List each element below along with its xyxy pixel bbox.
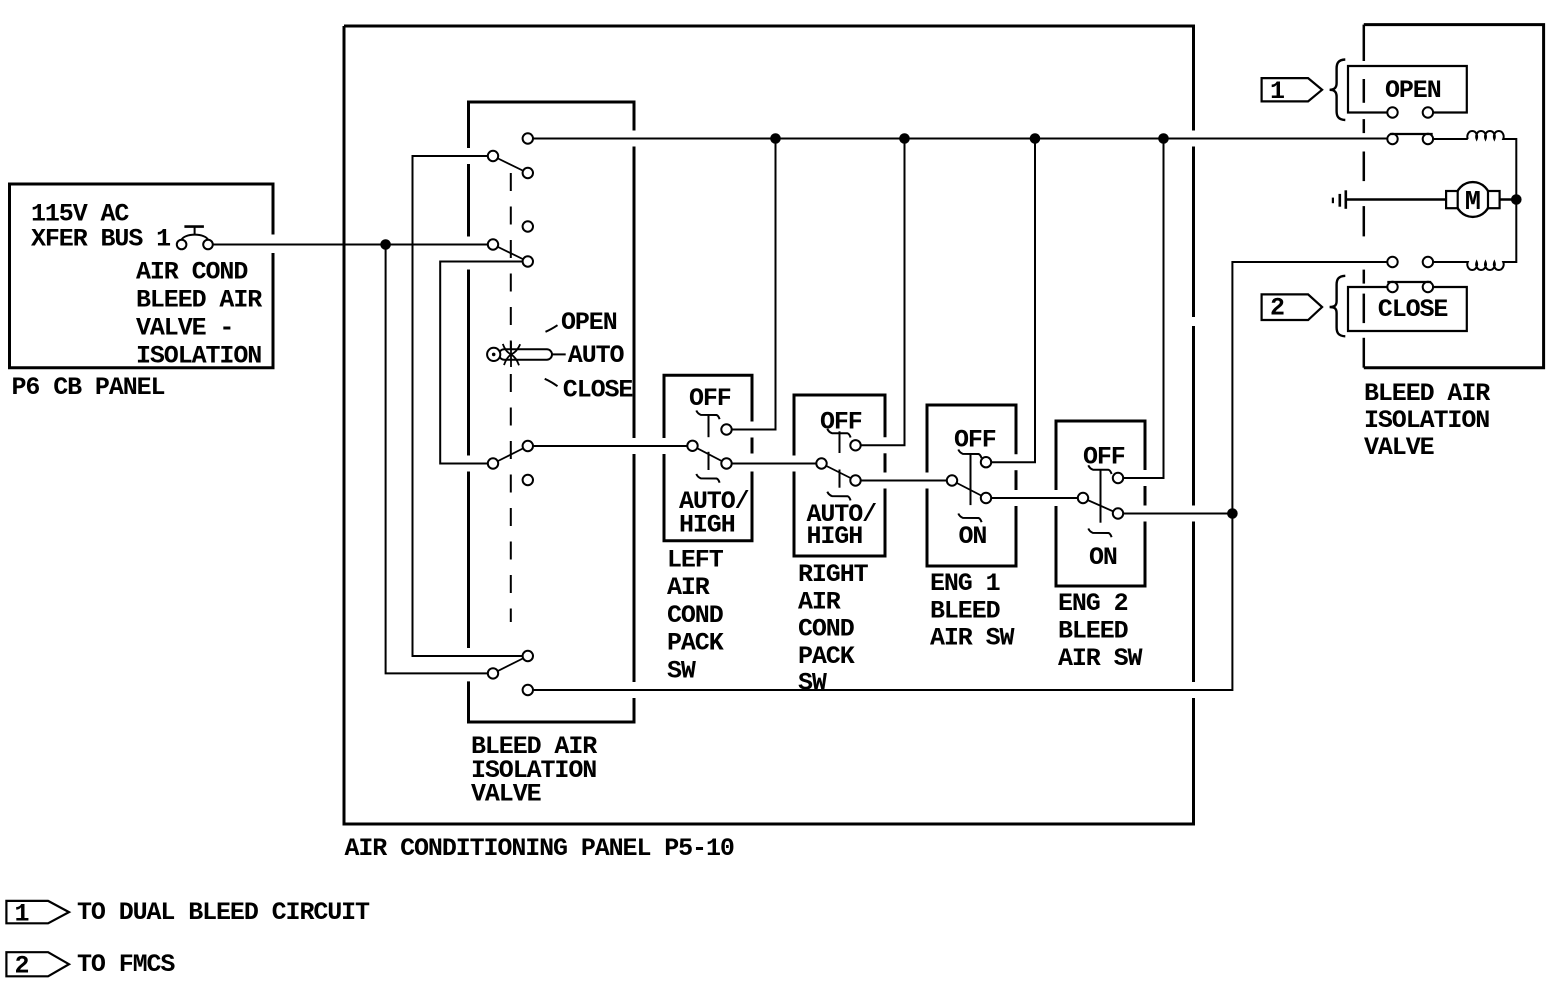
pole C common circle — [488, 458, 498, 468]
motor brush left — [1446, 191, 1458, 208]
flag 1 bottom — [6, 901, 69, 923]
left pack sw common circle — [687, 441, 697, 451]
OPEN limit switch contact circles — [1387, 134, 1397, 144]
junction dot top bus 4 — [1158, 133, 1169, 144]
svg-text:OFF: OFF — [820, 407, 862, 436]
svg-text:BLEED: BLEED — [930, 596, 1001, 625]
svg-text:AIR SW: AIR SW — [930, 624, 1015, 653]
wire ENG2 moving contact to junction — [1123, 513, 1232, 515]
eng2 sw OFF contact circle — [1113, 473, 1123, 483]
eng1 sw lower arc — [958, 514, 981, 523]
brace flag 1 — [1330, 60, 1346, 121]
close winding coil L2 — [1433, 200, 1516, 271]
junction dot motor — [1511, 194, 1522, 205]
cascade wire ENG1 to ENG2 — [991, 497, 1078, 499]
pole D lower throw circle (to bottom bus) — [523, 685, 533, 695]
eng2 sw moving contact circle — [1113, 508, 1123, 518]
svg-text:OFF: OFF — [954, 426, 996, 455]
pole C lower throw circle — [523, 475, 533, 485]
svg-text:AIR COND: AIR COND — [136, 257, 248, 286]
svg-text:VALVE -: VALVE - — [136, 313, 233, 342]
right pack sw moving contact circle — [850, 475, 860, 485]
eng1 sw arm — [952, 481, 986, 499]
left pack sw lower arc — [696, 474, 719, 483]
drop wire to LEFT pack sw OFF — [732, 139, 776, 430]
svg-text:AIR CONDITIONING PANEL P5-10: AIR CONDITIONING PANEL P5-10 — [345, 834, 734, 863]
motor M1 — [1455, 182, 1490, 217]
svg-text:AIR: AIR — [798, 587, 841, 616]
pole C arm — [493, 446, 528, 464]
junction dot top bus 1 — [770, 133, 781, 144]
pole D common circle — [488, 668, 498, 678]
bottom bus wire — [533, 262, 1387, 690]
wire motor to junction — [1500, 198, 1517, 200]
rotary switch mechanical dashed line — [510, 173, 512, 622]
left pack sw upper arc — [696, 411, 719, 420]
CLOSE box terminal circles — [1387, 282, 1397, 292]
svg-text:ISOLATION: ISOLATION — [1364, 406, 1489, 435]
wire pole A common left and down to pole D upper throw — [413, 156, 523, 656]
right pack sw lever segments — [839, 431, 841, 453]
svg-text:ENG 2: ENG 2 — [1058, 589, 1128, 618]
pole C upper throw circle (to LEFT pack sw) — [523, 441, 533, 451]
right pack sw common circle — [816, 458, 826, 468]
eng2 sw lower arc — [1088, 529, 1111, 538]
left pack sw lever segments — [708, 416, 710, 438]
rotary actuator pivot and wand — [487, 348, 552, 361]
eng1 sw moving contact circle — [981, 493, 991, 503]
pole B lower throw circle — [523, 256, 533, 266]
CLOSE box closed contact bar — [1387, 281, 1431, 283]
svg-text:LEFT: LEFT — [667, 546, 724, 575]
cascade wire RIGHT pack sw to ENG1 — [861, 480, 947, 482]
ground — [1333, 190, 1346, 209]
pole A lower throw circle — [523, 168, 533, 178]
wire OPEN contact to open winding — [1433, 138, 1468, 140]
wire pole B lower throw left and down to pole C common — [440, 262, 522, 464]
P6 CB panel box — [10, 184, 274, 368]
svg-text:BLEED: BLEED — [1058, 617, 1129, 646]
eng1 sw upper arc — [958, 450, 981, 459]
tick to CLOSE label — [545, 379, 558, 386]
eng2 sw common circle — [1078, 493, 1088, 503]
junction dot top bus 3 — [1030, 133, 1041, 144]
svg-text:OPEN: OPEN — [1385, 76, 1441, 105]
wire pole C upper throw to LEFT pack sw common — [533, 445, 687, 447]
svg-text:ON: ON — [959, 522, 987, 551]
svg-text:2: 2 — [1270, 294, 1284, 323]
svg-text:HIGH: HIGH — [679, 511, 735, 540]
tick to OPEN label — [546, 325, 558, 332]
left pack switch box — [664, 375, 752, 541]
svg-text:COND: COND — [667, 601, 724, 630]
motor brush right — [1488, 191, 1500, 208]
eng2 bleed switch box — [1056, 421, 1145, 586]
junction dot top bus 2 — [899, 133, 910, 144]
brace flag 2 — [1330, 276, 1346, 337]
pole D upper throw circle — [523, 651, 533, 661]
left pack sw moving contact circle — [721, 458, 731, 468]
svg-text:CLOSE: CLOSE — [1378, 295, 1448, 324]
pole B common circle — [488, 239, 498, 249]
bleed air isolation valve box left edge (dashed) — [1363, 25, 1366, 368]
drop wire to ENG2 sw OFF — [1123, 139, 1163, 479]
right pack switch box — [794, 395, 885, 556]
flag 1 (to dual bleed circuit) — [1262, 78, 1323, 101]
flag 2 bottom — [6, 952, 69, 976]
pole A common circle — [488, 151, 498, 161]
pole A arm — [493, 156, 528, 173]
bleed air isolation valve box (solid edges) — [1364, 25, 1544, 368]
svg-text:VALVE: VALVE — [471, 780, 541, 809]
eng2 sw arm — [1083, 498, 1118, 514]
svg-text:SW: SW — [667, 656, 696, 685]
svg-text:CLOSE: CLOSE — [563, 375, 633, 404]
open winding coil L1 — [1467, 131, 1516, 200]
svg-text:RIGHT: RIGHT — [798, 560, 869, 589]
svg-text:AUTO: AUTO — [568, 341, 625, 370]
svg-text:ISOLATION: ISOLATION — [136, 341, 261, 370]
wire breaker to rotary switch pole B common — [213, 244, 488, 246]
right pack sw OFF contact circle — [850, 440, 860, 450]
pole D arm — [493, 656, 528, 673]
CLOSE limit switch label box — [1348, 287, 1467, 331]
wire vertical x386 junction down to pole D common — [386, 245, 488, 674]
svg-text:BLEED AIR: BLEED AIR — [1364, 379, 1490, 408]
CLOSE limit switch contact circles — [1387, 257, 1397, 267]
top bus wire — [533, 138, 1387, 140]
drop wire to RIGHT pack sw OFF — [861, 139, 905, 446]
svg-text:TO FMCS: TO FMCS — [77, 950, 175, 979]
svg-text:ENG 1: ENG 1 — [930, 569, 1000, 598]
junction dot ENG2 output — [1227, 508, 1238, 519]
svg-text:TO DUAL BLEED CIRCUIT: TO DUAL BLEED CIRCUIT — [77, 898, 370, 927]
tick to AUTO label — [552, 353, 566, 355]
air conditioning panel box — [344, 26, 1194, 824]
OPEN limit switch label box — [1348, 66, 1467, 113]
eng1 sw lever segments — [970, 454, 972, 505]
svg-text:2: 2 — [15, 952, 29, 981]
eng2 sw lever segments — [1100, 470, 1102, 523]
flag 2 (to FMCS) — [1262, 294, 1323, 320]
svg-text:OFF: OFF — [689, 384, 731, 413]
svg-text:XFER BUS 1: XFER BUS 1 — [31, 224, 170, 253]
svg-text:BLEED AIR: BLEED AIR — [136, 285, 262, 314]
drop wire to ENG1 sw OFF — [991, 139, 1035, 463]
rotary X linkage symbol — [503, 342, 520, 368]
right pack sw upper arc — [827, 429, 850, 438]
left pack sw arm — [693, 446, 727, 464]
svg-text:COND: COND — [798, 615, 855, 644]
svg-text:ON: ON — [1089, 543, 1117, 572]
OPEN box terminal circles — [1387, 107, 1397, 117]
eng1 bleed switch box — [927, 405, 1016, 566]
svg-text:HIGH: HIGH — [807, 522, 863, 551]
svg-text:1: 1 — [15, 900, 29, 929]
svg-text:SW: SW — [798, 669, 827, 698]
bleed air isolation valve switch box — [469, 102, 635, 722]
OPEN limit switch closed contact bar — [1390, 133, 1433, 135]
left pack sw OFF contact circle — [721, 424, 731, 434]
pole B arm — [493, 245, 528, 262]
right pack sw arm — [822, 464, 856, 481]
svg-text:PACK: PACK — [798, 642, 855, 671]
svg-text:PACK: PACK — [667, 629, 724, 658]
cascade wire LEFT to RIGHT pack sw — [732, 463, 817, 465]
svg-text:VALVE: VALVE — [1364, 433, 1434, 462]
circuit breaker CB (AIR COND BLEED AIR VALVE - ISOLATION) — [177, 227, 213, 250]
pole B upper throw circle — [523, 221, 533, 231]
svg-text:OPEN: OPEN — [561, 308, 617, 337]
pole A upper throw circle (to top bus) — [523, 133, 533, 143]
svg-text:AIR: AIR — [667, 573, 710, 602]
eng1 sw OFF contact circle — [981, 457, 991, 467]
eng1 sw common circle — [947, 475, 957, 485]
right pack sw lower arc — [827, 492, 850, 501]
wire ground to motor — [1347, 198, 1446, 200]
svg-text:P6 CB PANEL: P6 CB PANEL — [12, 373, 165, 402]
svg-text:1: 1 — [1270, 77, 1284, 106]
svg-text:M: M — [1465, 188, 1481, 218]
junction dot at breaker wire — [380, 239, 391, 250]
svg-text:AIR SW: AIR SW — [1058, 644, 1143, 673]
eng2 sw upper arc — [1088, 465, 1111, 474]
